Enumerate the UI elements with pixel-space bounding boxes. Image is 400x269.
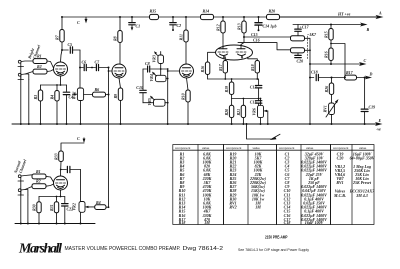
- wire: V2 right plate bend: [240, 44, 242, 46]
- input jack J3 (normal): [18, 175, 32, 181]
- wire: B rail: [293, 24, 363, 26]
- wire: R18 bottom to bias bus: [256, 73, 258, 79]
- label C16: [253, 37, 260, 42]
- resistor R9 (V1b cathode): [118, 88, 122, 101]
- logo Marshall: [18, 242, 62, 257]
- label R14: [203, 9, 210, 14]
- wire: main ground rail: [12, 123, 377, 125]
- svg-text:R3: R3: [33, 95, 38, 100]
- capacitor C2 (rail decoupling): [170, 17, 176, 31]
- node E arrowhead: [375, 122, 383, 126]
- capacitor C6: [80, 64, 96, 70]
- node A arrowhead: [376, 15, 384, 19]
- wire: tone bus verticals: [160, 68, 168, 78]
- resistor R34 (mixer): [95, 205, 106, 210]
- label R23: [324, 51, 329, 58]
- svg-text:component: component: [175, 146, 190, 150]
- label R13: [237, 23, 242, 30]
- capacitor C21 (coupling): [61, 166, 81, 172]
- wire: RV1 to ground rail: [331, 115, 333, 125]
- svg-text:Channel: Channel: [18, 158, 28, 174]
- capacitor C20 (electrolytic below): [295, 53, 301, 58]
- wire: R33 to V4 plate: [60, 162, 62, 177]
- svg-text:R10: R10: [181, 93, 186, 100]
- label R9: [113, 94, 118, 99]
- table column 1 entries: [179, 151, 212, 225]
- svg-text:C: C: [77, 136, 80, 141]
- svg-text:C2: C2: [177, 23, 182, 28]
- resistor R22 (in rail): [267, 14, 280, 19]
- capacitor C10: [140, 69, 146, 103]
- resistor R12 (V2 left plate load): [221, 21, 225, 33]
- label R20: [224, 109, 229, 116]
- capacitor C17 (electrolytic): [295, 25, 301, 36]
- label R12: [216, 24, 221, 31]
- svg-text:component: component: [333, 146, 348, 150]
- svg-text:C18: C18: [311, 70, 318, 75]
- wire R31 to lower ground: [56, 213, 58, 224]
- svg-text:R18: R18: [179, 220, 186, 225]
- label R11: [179, 34, 184, 40]
- wire: rail to R13 to V2 right plate: [241, 17, 244, 45]
- wire R10 to ground: [187, 102, 189, 124]
- capacitor C13: [255, 99, 261, 106]
- resistor R26: [329, 83, 333, 95]
- svg-text:D: D: [369, 72, 373, 77]
- wire: R34 to mixing bus: [106, 206, 109, 208]
- potentiometer VR6: [258, 105, 268, 117]
- svg-text:Dwg 78614-2: Dwg 78614-2: [183, 246, 224, 252]
- input jack J1 (bright): [18, 60, 33, 66]
- filter can F1: [291, 36, 305, 41]
- resistor R11 (V2a plate load): [184, 30, 188, 42]
- potentiometer VR2 (normal volume): [79, 202, 89, 213]
- junction dot C15 tap: [243, 36, 245, 38]
- svg-text:See 78614-3 for O/P stage and: See 78614-3 for O/P stage and Power Supp…: [238, 248, 309, 252]
- potentiometer VR4 (horizontal): [152, 72, 166, 82]
- svg-text:C: C: [364, 58, 367, 63]
- wire: V1b cathode to R9: [119, 78, 121, 88]
- resistor R6 (mix): [93, 92, 106, 97]
- wire: jack sleeves to ground rail: [21, 67, 29, 125]
- svg-text:R18: R18: [250, 64, 255, 71]
- label VR4: [149, 74, 154, 81]
- resistor R15: [329, 29, 333, 41]
- svg-text:C6: C6: [82, 60, 87, 65]
- resistor R1 (grid stopper): [33, 59, 47, 64]
- label C (right): [364, 58, 367, 63]
- svg-text:R9: R9: [113, 94, 118, 99]
- label VR5: [147, 98, 152, 105]
- wire: node C line: [310, 63, 362, 65]
- label R33: [54, 153, 59, 160]
- label C (lower): [77, 136, 80, 141]
- wire: bias bus to R19: [231, 79, 233, 99]
- wire: V2a grid: [168, 70, 180, 72]
- svg-text:VR2: VR2: [71, 203, 76, 210]
- svg-text:R26: R26: [324, 86, 329, 93]
- note See 78614-3: [238, 248, 309, 252]
- triode V1a: [54, 62, 68, 76]
- label C1: [136, 24, 141, 29]
- junction node V1a plate / C5 tap: [61, 49, 63, 51]
- label R1: [37, 54, 42, 59]
- svg-text:value: value: [359, 146, 367, 150]
- svg-text:R33: R33: [54, 153, 59, 160]
- svg-text:-ve: -ve: [376, 127, 381, 132]
- label R25: [346, 70, 354, 75]
- wire: V2 cathode right to R18: [248, 57, 257, 60]
- wire: rail to R12 to V2 left plate: [222, 17, 224, 45]
- svg-text:R15: R15: [324, 31, 329, 38]
- node D arrowhead: [365, 76, 372, 80]
- svg-text:R20: R20: [269, 9, 276, 14]
- input jack J4 (normal low): [18, 187, 32, 196]
- svg-text:Marshall: Marshall: [18, 242, 62, 257]
- wire R20: [231, 99, 233, 125]
- svg-text:R6: R6: [95, 87, 100, 92]
- wire: B rail to R15, R15 to R23: [330, 25, 332, 49]
- wire: C10 to VR5 to bus: [143, 102, 168, 104]
- svg-text:C5: C5: [68, 42, 73, 47]
- wire: VR2 to ground: [80, 212, 82, 223]
- label C6: [82, 60, 87, 65]
- svg-text:~1K7: ~1K7: [307, 32, 317, 37]
- svg-text:C7: C7: [95, 60, 101, 65]
- svg-text:C20: C20: [297, 59, 304, 64]
- label R7: [55, 34, 60, 40]
- potentiometer RV1 (preset): [326, 99, 339, 117]
- capacitor C1 (rail decoupling): [129, 17, 135, 31]
- resistor R13 (V2 right plate load): [242, 21, 246, 33]
- svg-text:VR5: VR5: [147, 98, 152, 105]
- svg-text:R1: R1: [36, 169, 41, 174]
- title text: [65, 246, 224, 252]
- label VR1: [72, 91, 77, 99]
- label C12: [250, 84, 257, 89]
- label 1K7: [307, 32, 317, 37]
- svg-text:C1: C1: [136, 24, 141, 29]
- wire: mixing bus (long vertical to normal channel): [108, 67, 110, 208]
- svg-text:16µF 100V: 16µF 100V: [305, 220, 324, 225]
- label VR2: [71, 203, 76, 210]
- capacitor C5 (coupling): [62, 47, 80, 53]
- wire: PI left vertical: [305, 38, 312, 124]
- label C14 value: [263, 24, 277, 29]
- resistor R29 (grid stopper): [32, 184, 46, 189]
- resistor R21: [241, 105, 245, 117]
- wire: rail to R8 to V1b plate: [119, 17, 121, 64]
- svg-text:R30: R30: [32, 204, 37, 211]
- svg-text:WR1: WR1: [72, 91, 77, 99]
- wire: lower ground rail: [15, 223, 95, 225]
- wire: VR1 wiper to R6 to mixing line: [84, 94, 110, 96]
- wire: VR2 wiper to R34: [88, 206, 95, 208]
- table column 2 entries: [229, 151, 266, 209]
- wire: node D line left: [310, 77, 314, 79]
- potentiometer VR3 (treble, vertical): [154, 51, 164, 63]
- wire: R16 bottom to bias bus: [207, 75, 209, 80]
- off-sheet arrow: [270, 134, 280, 140]
- label R2: [37, 64, 42, 69]
- svg-text:C12: C12: [250, 84, 257, 89]
- dashed link: [307, 36, 309, 59]
- resistor R23: [329, 48, 333, 61]
- wire: bias bus: [208, 78, 259, 80]
- svg-text:VR4: VR4: [149, 74, 154, 81]
- svg-text:R8: R8: [113, 36, 118, 41]
- label D: [369, 72, 373, 77]
- resistor R25: [345, 75, 357, 80]
- label C20: [297, 59, 304, 64]
- node C arrow into rail (top left): [85, 17, 88, 23]
- wire: V1b grid: [108, 70, 112, 72]
- svg-text:MASTER VOLUME POWERCEL COMBO P: MASTER VOLUME POWERCEL COMBO PREAMP.: [65, 246, 181, 252]
- svg-text:R17: R17: [346, 70, 354, 75]
- label C13: [250, 100, 257, 105]
- label C10: [136, 85, 143, 90]
- resistor R2 (grid stopper): [33, 69, 47, 74]
- label R19: [224, 86, 229, 93]
- svg-text:R21: R21: [236, 109, 241, 116]
- label C5: [68, 42, 73, 47]
- svg-text:C19: C19: [369, 105, 376, 110]
- svg-text:RV1: RV1: [322, 105, 327, 112]
- svg-text:R12: R12: [216, 24, 221, 31]
- wire: R17 bottom to bias bus: [224, 73, 226, 79]
- label R15: [324, 31, 329, 38]
- svg-text:2150 PRE-AMP: 2150 PRE-AMP: [265, 234, 288, 239]
- wire: tone stack right bus: [167, 68, 169, 124]
- label C4: [69, 95, 74, 100]
- wire: C feed to R33: [61, 143, 84, 151]
- label R21: [236, 109, 241, 116]
- svg-text:B: B: [366, 27, 370, 32]
- resistor R3 (cathode): [38, 90, 42, 101]
- label R28: [36, 169, 41, 174]
- label channel (rotated): [26, 43, 41, 60]
- resistor R17 (cathode): [223, 61, 227, 74]
- svg-text:R4: R4: [50, 95, 55, 100]
- label VR6: [251, 108, 256, 115]
- resistor R28 (grid stopper): [32, 174, 46, 179]
- label HT +ve: [337, 12, 351, 17]
- dual triode V2: [216, 45, 253, 60]
- svg-text:R17: R17: [218, 63, 223, 71]
- label R22: [269, 9, 276, 14]
- svg-text:C14 1µb: C14 1µb: [263, 24, 277, 29]
- svg-text:C18: C18: [284, 220, 291, 225]
- capacitor C4 (cathode bypass): [63, 92, 69, 124]
- label E: [378, 118, 382, 123]
- wire: V1a cathode: [41, 76, 67, 92]
- wire: V2 left grid feed: [208, 52, 216, 62]
- wire: C16 line to PI: [238, 43, 291, 50]
- table frame: [173, 145, 374, 225]
- resistor R7 (V1a plate load): [60, 30, 64, 43]
- wire: lower jack sleeves to ground: [21, 181, 28, 224]
- wire: V1a plate to R7 to rail: [61, 17, 63, 62]
- resistor R16 (grid leak): [205, 62, 209, 75]
- svg-text:C16: C16: [253, 37, 260, 42]
- resistor R14 (in rail): [201, 14, 214, 19]
- svg-text:component: component: [279, 146, 294, 150]
- input jack J2 (bright low): [18, 72, 33, 80]
- wire: V4 cathode bus: [39, 190, 65, 203]
- svg-text:C: C: [77, 20, 80, 25]
- wire: R25 to D arrow: [357, 77, 368, 79]
- label R35: [150, 9, 157, 14]
- wire: drop to off-sheet arrow: [247, 124, 272, 139]
- resistor R33 (plate load): [59, 151, 64, 162]
- wire: lower bus: [232, 98, 260, 100]
- svg-text:RV2: RV2: [229, 205, 236, 210]
- capacitor C12: [255, 79, 261, 99]
- label R31: [49, 204, 54, 211]
- junction dots on HT rail: [61, 16, 260, 18]
- svg-text:64+80µF 350V: 64+80µF 350V: [350, 155, 375, 160]
- svg-text:R13: R13: [237, 23, 242, 30]
- label R4: [50, 95, 55, 100]
- svg-text:1M: 1M: [204, 220, 210, 225]
- wire R30 to lower ground: [38, 213, 40, 224]
- svg-text:VR6: VR6: [251, 108, 256, 115]
- label B: [366, 27, 370, 32]
- wire: R23 bottom to C line: [330, 61, 332, 65]
- wire: C15 line to PI: [244, 36, 291, 38]
- resistor R8 (V1b plate load): [118, 31, 122, 43]
- capacitor C7: [91, 64, 108, 70]
- wire: HT supply rail (node A): [62, 16, 378, 18]
- svg-text:C13: C13: [250, 100, 257, 105]
- svg-text:VR3: VR3: [152, 55, 157, 62]
- node C arrowhead: [359, 62, 367, 66]
- svg-text:25K Preset: 25K Preset: [352, 180, 372, 185]
- svg-text:A: A: [378, 11, 382, 16]
- svg-text:M.C.B.: M.C.B.: [333, 193, 346, 198]
- svg-text:R4: R4: [96, 200, 101, 205]
- node C arrow (feed): [83, 138, 86, 143]
- capacitor C14 (rail decoupling): [255, 17, 262, 31]
- svg-text:1M: 1M: [255, 205, 261, 210]
- svg-text:C10: C10: [136, 85, 143, 90]
- wire: D line to R26: [331, 77, 333, 104]
- capacitor C19: [361, 78, 368, 125]
- label VR3: [152, 55, 157, 62]
- label R8: [113, 36, 118, 41]
- svg-text:R19: R19: [224, 86, 229, 93]
- wire: coupling to volume pot: [80, 170, 82, 202]
- triode V2a: [180, 64, 194, 78]
- node B arrowhead: [360, 23, 368, 27]
- resistor R35 (in rail): [150, 14, 159, 19]
- label R6: [95, 87, 100, 92]
- resistor R20: [229, 105, 233, 117]
- wire R4 to ground rail: [56, 101, 58, 124]
- table headers: [175, 146, 367, 150]
- label channel (rotated, lower): [12, 158, 27, 175]
- capacitor C18: [316, 74, 344, 80]
- wire: C5 to VR1 top, VR1 bottom to ground: [79, 50, 81, 124]
- label C8: [145, 61, 150, 66]
- svg-text:R35: R35: [150, 9, 157, 14]
- svg-text:R16: R16: [200, 66, 205, 73]
- svg-text:component: component: [226, 146, 241, 150]
- svg-text:value: value: [306, 146, 314, 150]
- capacitor C22 (cathode bypass): [62, 204, 68, 224]
- resistor R19: [229, 82, 233, 95]
- svg-text:R7: R7: [55, 34, 60, 40]
- svg-text:+C17: +C17: [300, 25, 310, 30]
- resistor R31 (cathode): [54, 202, 58, 213]
- label R10: [181, 93, 186, 100]
- capacitor C8: [143, 66, 168, 72]
- svg-text:C20: C20: [337, 155, 344, 160]
- svg-text:HT +ve: HT +ve: [337, 12, 351, 17]
- junction dot B rail / R15: [330, 24, 332, 26]
- label C (top left): [77, 20, 80, 25]
- svg-text:C15: C15: [251, 32, 258, 37]
- svg-text:R11: R11: [179, 34, 184, 40]
- svg-text:R2: R2: [37, 64, 42, 69]
- svg-text:R31: R31: [49, 204, 54, 211]
- label C22: [67, 207, 74, 212]
- wire: R28/R29 to V4 grid: [46, 176, 54, 186]
- label RV1: [322, 105, 327, 112]
- svg-text:RV1: RV1: [336, 180, 343, 185]
- svg-text:R20: R20: [224, 109, 229, 116]
- wire: rail to R11 to V2a plate: [185, 17, 187, 64]
- table column 4 entries: [333, 151, 375, 198]
- resistor R30 (cathode): [37, 202, 41, 213]
- label -ve: [376, 127, 381, 132]
- resistor R4 (cathode): [55, 91, 59, 102]
- label 2150 PRE-AMP: [265, 234, 288, 239]
- triode V1b: [112, 64, 126, 78]
- label R17: [218, 63, 223, 71]
- filter can F2: [291, 48, 305, 53]
- wire R3 to ground rail: [40, 101, 42, 124]
- label R3: [33, 95, 38, 100]
- label R29: [36, 179, 41, 184]
- label C15: [251, 32, 258, 37]
- resistor R10 (V2a cathode): [186, 90, 190, 102]
- svg-text:3M 4.3: 3M 4.3: [355, 193, 368, 198]
- svg-text:R14: R14: [203, 9, 210, 14]
- label C2: [177, 23, 182, 28]
- wire R9 to ground: [120, 101, 122, 125]
- svg-text:R2: R2: [36, 179, 41, 184]
- wire: V2 cathode left to R17: [224, 57, 226, 61]
- svg-text:value: value: [253, 146, 261, 150]
- wire: VR6 connections: [260, 98, 268, 124]
- label C18: [311, 70, 318, 75]
- label A: [378, 11, 382, 16]
- svg-text:E: E: [378, 118, 382, 123]
- label +C17: [300, 25, 310, 30]
- wire: VR3 to tone bus: [160, 52, 162, 70]
- table column 3 entries: [284, 151, 327, 225]
- label R30: [32, 204, 37, 211]
- junction dots on lower ground rail: [20, 223, 82, 225]
- svg-text:R16: R16: [324, 51, 329, 58]
- junction dots on ground rail: [20, 123, 366, 125]
- label R34: [96, 200, 101, 205]
- wire: R1/R2 to V1a grid: [47, 61, 54, 72]
- wire: tap to D line: [331, 44, 346, 79]
- resistor R18 (cathode): [255, 61, 259, 74]
- triode V4: [54, 176, 68, 190]
